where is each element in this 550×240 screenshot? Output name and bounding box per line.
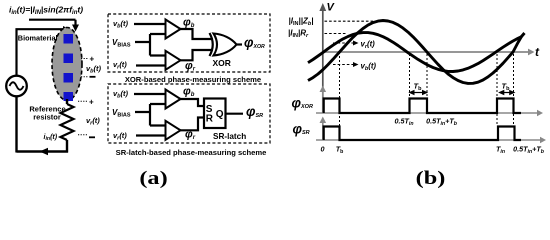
V axis [322,9,324,113]
SR scheme dashed box [108,84,270,143]
arrowhead into biomaterial (from title) [72,25,79,32]
svg-text:vr(t): vr(t) [361,40,376,50]
biomaterial ellipse [52,28,82,101]
wire XOR output [236,43,242,45]
svg-text:vb(t): vb(t) [86,64,102,74]
comparator U2 [166,51,181,70]
vb minus sign [90,76,96,78]
svg-text:Q: Q [216,109,224,120]
wire vb to comparator [134,93,165,95]
dashed vertical at Tin+Tb [513,54,515,126]
arrowhead into biomaterial (from source) [63,26,70,32]
amplitude level dashed line Rr [325,33,348,35]
wire U2 out to XOR [180,50,213,60]
svg-text:+: + [90,55,95,64]
Tb interval arrows (right) [500,92,511,94]
svg-text:vr(t): vr(t) [86,116,100,126]
waveform phi_XOR [324,99,521,114]
wire vb to comparator [134,23,165,25]
comparator U4 [166,121,181,140]
svg-text:Biomaterial: Biomaterial [18,34,58,43]
amplitude level dashed line Zb [325,20,375,22]
node vb plus leader [81,58,88,60]
phi_XOR axis baseline [316,112,537,114]
wire Q output [226,113,244,115]
pointer arrow to v_r [333,42,353,44]
waveform v_b sine [308,21,525,84]
svg-text:XOR-based phase-measuring sche: XOR-based phase-measuring scheme [125,75,261,84]
svg-text:iin(t): iin(t) [44,134,58,142]
XOR gate G1 [210,33,213,56]
svg-text:+: + [89,98,94,107]
svg-text:0: 0 [321,145,325,154]
pointer arrow to v_b [333,64,353,66]
phi_SR axis vertical arrow [322,121,324,140]
svg-text:vr(t): vr(t) [113,60,127,70]
zero-crossing dashed vertical at Tb [339,52,341,126]
wire ellipse to resistor [66,99,68,104]
phi_XOR axis vertical arrow [322,90,324,113]
svg-text:resistor: resistor [33,113,61,122]
biomaterial cells (blue squares) [64,34,74,44]
wire resistor to bottom [66,140,68,153]
title leader wire into biomaterial top [29,20,76,25]
svg-text:vr(t): vr(t) [113,131,127,141]
svg-text:vb(t): vb(t) [113,89,129,99]
svg-text:vb(t): vb(t) [361,62,377,72]
vr minus sign [89,136,95,138]
waveform phi_SR [324,127,521,141]
comparator U3 [166,90,181,109]
svg-text:R: R [206,114,214,125]
node vb minus leader [81,76,88,78]
resistor Rr zigzag [61,104,74,140]
dashed vertical at Tin [496,54,498,126]
svg-text:SR-latch-based phase-measuring: SR-latch-based phase-measuring scheme [116,148,267,157]
current direction arrowhead [40,148,49,156]
svg-text:|IIN|Rr: |IIN|Rr [288,29,309,39]
wire source to biomaterial left [16,28,64,76]
bottom return wire [17,96,69,153]
dashed vertical at 0.5Tin [409,54,411,98]
SR latch U5 [204,99,226,129]
svg-text:(a): (a) [139,167,167,188]
node vr minus leader [78,134,87,136]
svg-text:SR-latch: SR-latch [213,132,246,141]
wire vr to comparator [136,134,165,136]
svg-text:vb(t): vb(t) [113,19,129,29]
svg-text:(b): (b) [416,167,446,188]
wire vr to comparator [136,64,165,66]
XOR scheme dashed box [108,14,270,72]
phi_SR axis baseline [316,139,540,141]
waveform v_r sine [308,33,522,72]
Tb interval arrows (middle) [411,92,426,94]
node vr plus leader [78,100,87,102]
wire VBIAS branch [135,34,165,56]
wire U1 out to XOR [180,29,213,39]
comparator U1 [166,20,181,39]
wire U4 out to R input [180,118,204,131]
svg-text:XOR: XOR [213,58,231,68]
t axis [323,51,528,53]
AC source V1 [6,76,27,97]
wire VBIAS branch [135,104,165,126]
dashed vertical at 0.5Tin+Tb [426,54,428,98]
wire U3 out to S input [180,99,204,106]
